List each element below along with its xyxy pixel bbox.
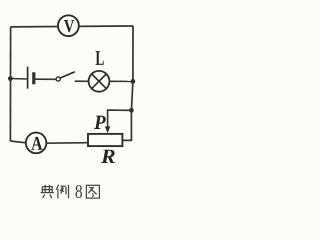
wire battery to switch <box>35 78 56 80</box>
wire bottom left corner to ammeter <box>10 141 26 143</box>
caption: 例 <box>56 185 68 199</box>
voltmeter U1 <box>58 15 79 36</box>
wire top (left wire to voltmeter to right corner) <box>11 25 134 28</box>
rheostat R body <box>88 134 122 146</box>
node B (lamp junction on right wire) <box>131 79 136 84</box>
wire battery branch <box>10 78 26 81</box>
caption: 8 <box>76 185 83 198</box>
caption: 典 <box>41 185 54 198</box>
battery cell <box>28 67 34 89</box>
label R <box>101 150 115 163</box>
wire lamp to right wire <box>109 80 131 82</box>
lamp L symbol <box>89 71 110 92</box>
ammeter U2 <box>26 133 47 154</box>
caption: 图 <box>86 185 99 198</box>
label L <box>96 51 104 65</box>
wire slider to right wire <box>108 110 132 127</box>
wire switch to lamp <box>75 80 89 82</box>
node A (left junction) <box>8 76 13 81</box>
wire right vertical <box>122 26 133 140</box>
node C (slider junction on right wire) <box>129 108 134 113</box>
switch S (open) <box>56 72 75 81</box>
wire ammeter to rheostat <box>46 142 88 145</box>
wire left vertical <box>9 27 11 141</box>
slider arrow P <box>105 126 110 133</box>
label P <box>94 116 106 129</box>
